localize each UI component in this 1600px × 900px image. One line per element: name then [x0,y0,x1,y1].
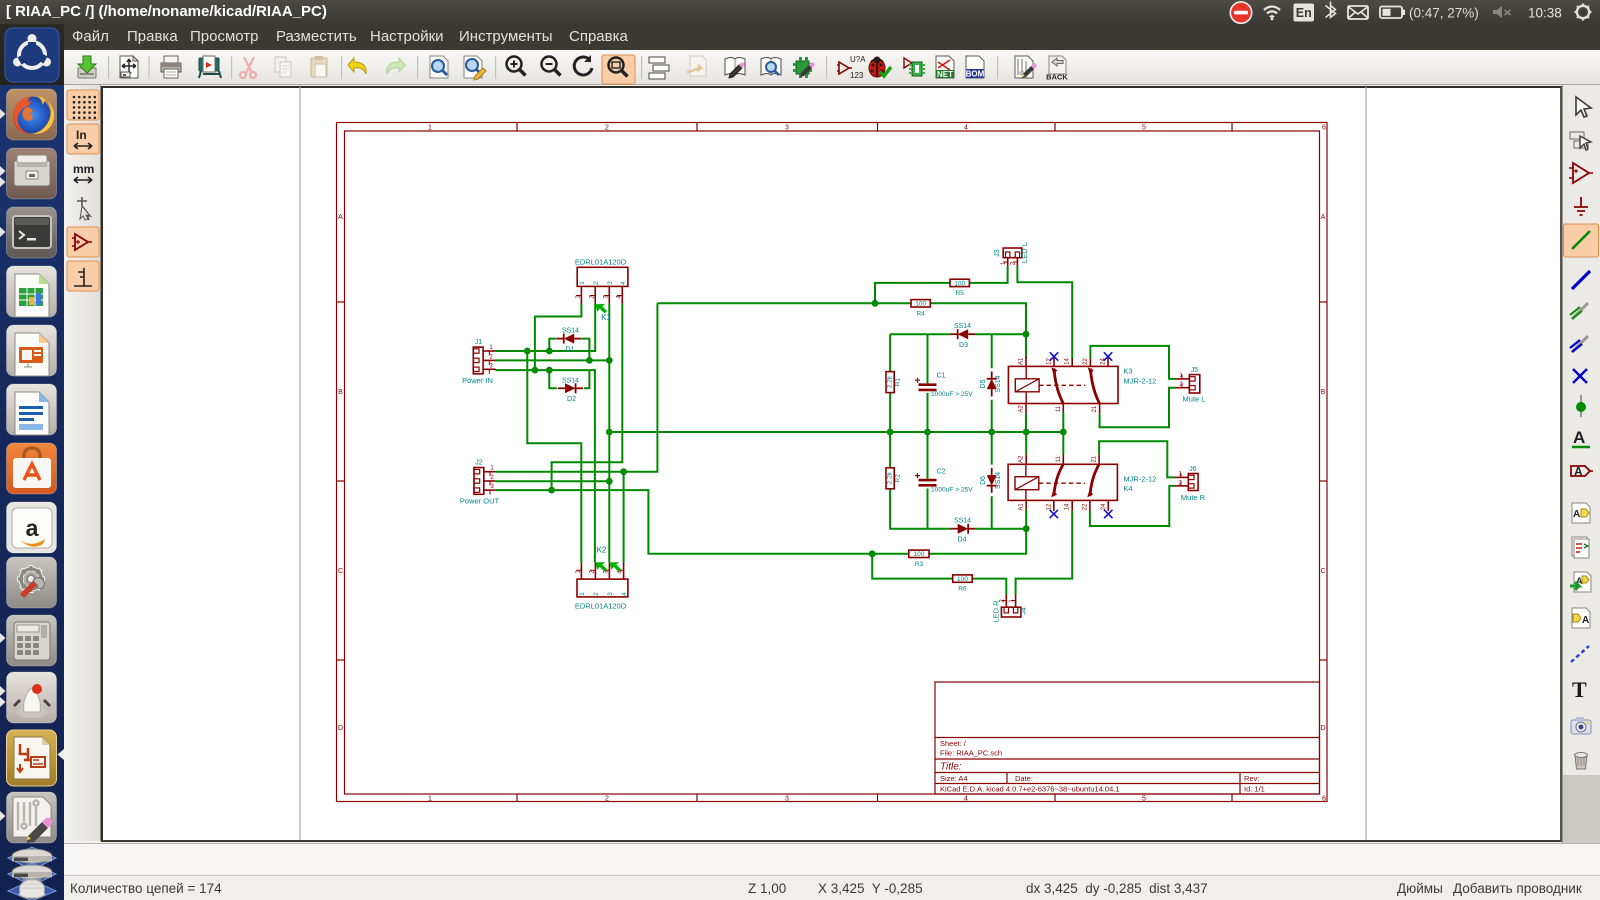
wire main bus row [609,431,1063,433]
resistor R1 [886,372,894,393]
svg-text:2: 2 [605,796,609,803]
svg-text:D1: D1 [566,347,575,354]
junction D3/K3.A1 [1023,331,1030,338]
wire K4.22 to J6.2 [1090,486,1175,526]
svg-text:4: 4 [621,592,628,596]
svg-text:Rev:: Rev: [1244,774,1259,783]
svg-text:Mute R: Mute R [1181,493,1206,502]
wire J1.3 to K2.2 column [496,370,595,562]
right tool column [1562,85,1600,775]
svg-text:File: RIAA_PC.sch: File: RIAA_PC.sch [940,749,1002,758]
svg-text:11: 11 [1056,405,1062,412]
junction J2.1/K2.4 [620,468,627,475]
launcher [0,85,64,900]
wire D2 anode branch [549,370,557,388]
svg-text:Power OUT: Power OUT [460,497,500,506]
svg-text:T: T [1572,677,1587,702]
svg-text:EDRL01A120D: EDRL01A120D [575,258,627,267]
svg-text:6: 6 [1322,125,1326,132]
svg-text:5: 5 [1142,125,1146,132]
connector J3 [1003,248,1022,258]
svg-text:Size: A4: Size: A4 [940,774,968,783]
junction J1.2/D1 [586,357,593,364]
wire D6 top lead [991,432,993,465]
capacitor C1 [919,383,937,386]
svg-text:J4: J4 [1020,607,1027,615]
svg-text:SS14: SS14 [954,518,971,525]
svg-text:3: 3 [785,125,789,132]
svg-text:10:38: 10:38 [1528,6,1562,21]
svg-text:D5: D5 [980,379,987,388]
svg-text:1: 1 [490,466,494,472]
diode D2 [558,387,565,389]
svg-text:C: C [338,568,343,575]
frame row ticks [337,301,345,303]
ubuntu BFB button [0,0,64,85]
svg-text:KiCad E.D.A. kicad 4.0.7+e2-6: KiCad E.D.A. kicad 4.0.7+e2-6376~38~ubun… [940,785,1120,794]
svg-text:SS14: SS14 [995,375,1002,392]
no-connect K3 pin24 [1104,352,1112,360]
junction R4/R5 tap [872,300,879,307]
wire D6 bottom lead [991,496,993,529]
junction bus/relay coils [1023,429,1030,436]
svg-text:1: 1 [579,592,586,596]
wire K4.A2 lead [1025,432,1027,454]
bottom strips [64,843,1600,876]
connector J5 [1189,375,1199,393]
wire K3.A2 lead [1025,414,1027,432]
wire R6 to J4.2 [972,579,1006,595]
wire K4.14 to J4.1 [1016,511,1073,595]
svg-text:123: 123 [850,71,864,80]
junction J2.2/K column [606,478,613,485]
ERC marker K2 pin3 [609,562,621,572]
svg-text:R1: R1 [895,378,902,387]
svg-text:100: 100 [957,576,968,583]
wire J2.2 [496,480,610,482]
connector J2 [474,468,484,495]
svg-text:D: D [338,725,343,732]
svg-text:K3: K3 [1123,367,1132,376]
svg-text:D2: D2 [567,396,576,403]
svg-text:14: 14 [1065,503,1071,510]
diode D1 [574,338,581,340]
svg-text:3: 3 [489,363,493,369]
svg-text:SS14: SS14 [562,328,579,335]
svg-text:R6: R6 [958,586,967,593]
diode D3 [968,333,975,335]
canvas [101,86,1562,842]
wire C1 bottom lead [927,393,929,432]
svg-text:1: 1 [489,345,493,351]
junction D4/K4.A1 [1023,525,1030,532]
junction J1.1/chain [524,348,531,355]
svg-text:2: 2 [490,475,494,481]
svg-text:4: 4 [620,281,627,285]
svg-text:A1: A1 [1019,357,1025,365]
wire R5 to J3.1 [969,266,1007,283]
wire K3.21 to J5.2 [1100,388,1175,428]
junction J1.1/D1 [546,348,553,355]
svg-text:2.2k: 2.2k [887,375,894,388]
resistor R4 [911,300,930,307]
diode D4 [950,528,957,530]
svg-text:Sheet: /: Sheet: / [940,739,967,748]
svg-text:A: A [1573,428,1585,447]
frame inner border [345,131,1320,794]
svg-text:B: B [338,389,343,396]
wire C1 top lead [927,334,929,383]
no-connect K3 pin12 [1050,352,1058,360]
svg-text:22: 22 [1082,503,1088,510]
junction bus/R1R2 [887,429,894,436]
svg-text:4: 4 [964,125,968,132]
system tray [1220,0,1600,24]
resistor R2 [886,468,894,489]
svg-text:C1: C1 [937,373,946,380]
svg-text:2.2k: 2.2k [887,471,894,484]
svg-text:6: 6 [1322,796,1326,803]
junction J2.3/K1.4 [548,487,555,494]
svg-text:NET: NET [937,70,953,79]
wire D5 top lead [991,334,993,368]
svg-text:D4: D4 [958,536,967,543]
wire R1 bottom lead [889,393,891,432]
svg-text:5: 5 [1142,796,1146,803]
wire D1 cathode branch [582,339,590,361]
svg-text:21: 21 [1092,405,1098,412]
junction J1.3/K1.1 [532,367,539,374]
svg-text:K4: K4 [1123,484,1132,493]
svg-text:MJR-2-12: MJR-2-12 [1123,376,1156,385]
wire R2 bottom to D4 row [890,489,950,529]
svg-text:3: 3 [607,592,614,596]
svg-text:D6: D6 [980,476,987,485]
relay K3 [1008,366,1118,403]
svg-text:J5: J5 [1191,367,1199,374]
svg-text:21: 21 [1092,455,1098,462]
page sheet left edge [299,85,301,841]
svg-text:1: 1 [428,796,432,803]
wire K1.4 to J2.3 jog [552,304,623,490]
ERC marker K1 pin2 [595,304,607,314]
svg-text:1: 1 [428,125,432,132]
main toolbar icons [0,50,1100,85]
wire J1.2 to K-column [496,359,610,361]
wire R4 to K3.A1 [930,303,1026,358]
wire D2 cathode branch [584,370,590,388]
svg-text:MJR-2-12: MJR-2-12 [1123,474,1156,483]
svg-text:BACK: BACK [1046,73,1068,82]
wire R5 tap [875,283,950,303]
svg-text:22: 22 [1083,358,1089,365]
svg-text:J2: J2 [475,460,483,467]
svg-text:R4: R4 [916,310,925,317]
svg-text:(0:47, 27%): (0:47, 27%) [1409,6,1479,21]
window title bar [0,0,1600,24]
svg-text:R5: R5 [956,290,965,297]
svg-text:1: 1 [1009,599,1015,603]
wire D1 anode branch [549,339,556,351]
diode D6 [991,468,993,475]
wire K4.21 to J6.1 [1099,441,1174,477]
svg-text:Date:: Date: [1015,774,1033,783]
junction J1.2/K column [606,357,613,364]
wire R3 to K4.A1 riser [929,510,1026,554]
svg-text:2: 2 [605,125,609,132]
wire R4 row [657,302,911,304]
frame column ticks [516,123,518,132]
svg-text:K2: K2 [597,546,607,555]
svg-text:a: a [26,515,39,541]
wire K2.4 column [623,472,625,563]
frame outer border [337,123,1328,802]
svg-text:J1: J1 [475,339,483,346]
junction J1.3/D2 [546,367,553,374]
resistor R6 [953,575,973,582]
svg-text:C2: C2 [937,469,946,476]
svg-text:1: 1 [579,281,586,285]
title block [935,682,1320,794]
svg-text:In: In [76,128,87,142]
relay connector K1 [577,267,628,286]
svg-text:2: 2 [593,281,600,285]
svg-text:A: A [338,214,343,221]
wire J1 to K2.1 [527,351,581,562]
wire C2 bottom lead [927,488,929,528]
svg-text:1000uF > 25V: 1000uF > 25V [931,391,973,398]
wire R1 top lead [889,334,891,371]
svg-text:K1: K1 [601,313,611,322]
svg-text:EDRL01A120D: EDRL01A120D [575,602,627,611]
wire K3.22 to J5.1 [1090,346,1175,379]
resistor R3 [909,550,929,557]
svg-text:12: 12 [1046,503,1052,510]
junction bus/C1C2 [924,429,931,436]
wire K1.1 to J1.3 jog [535,304,582,370]
wire D3 row left [890,333,950,335]
main toolbar [0,50,1600,85]
svg-text:R3: R3 [915,561,924,568]
svg-text:2: 2 [489,354,493,360]
wire J2.1 to R4 riser [496,303,658,471]
wire K1.3 to K2.3 column [608,304,610,562]
svg-text:U?A: U?A [850,55,866,64]
no-connect K4 pin24 [1104,510,1112,518]
svg-text:100: 100 [954,280,965,287]
menu bar [0,24,1600,50]
wire R3-R6 link [872,554,953,579]
svg-text:A: A [1582,615,1589,626]
capacitor C2 [919,479,937,482]
svg-text:24: 24 [1101,503,1107,510]
svg-text:14: 14 [1065,358,1071,365]
connector J6 [1188,474,1198,491]
wire K3.11 lead [1062,413,1064,433]
wire D3 row right [975,333,1026,335]
svg-text:3: 3 [607,281,614,285]
svg-text:SS14: SS14 [954,323,971,330]
svg-text:A: A [1321,214,1326,221]
svg-text:LED L: LED L [1020,242,1029,263]
relay K4 [1008,464,1117,500]
svg-text:BOM: BOM [966,70,985,79]
svg-text:1000uF > 25V: 1000uF > 25V [931,486,973,493]
svg-text:A: A [1573,509,1580,520]
svg-text:Title:: Title: [940,762,962,773]
right tool palette [1562,85,1600,785]
svg-text:SS14: SS14 [995,472,1002,489]
svg-text:J6: J6 [1189,466,1197,473]
svg-text:D: D [1320,725,1325,732]
svg-text:D3: D3 [959,342,968,349]
svg-text:3: 3 [785,796,789,803]
svg-text:J3: J3 [994,249,1001,257]
svg-text:R2: R2 [895,474,902,483]
svg-text:11: 11 [1056,456,1062,463]
ERC marker K2 pin2 [595,562,607,572]
ubuntu button [0,24,64,85]
svg-text:C: C [1320,568,1325,575]
svg-text:B: B [1321,389,1326,396]
svg-text:SS14: SS14 [562,377,579,384]
svg-text:Id: 1/1: Id: 1/1 [1244,785,1265,794]
svg-text:A: A [1574,465,1583,479]
relay connector K2 [577,579,628,597]
svg-text:A2: A2 [1019,405,1025,413]
connector J4 [1001,607,1021,617]
svg-text:Power IN: Power IN [462,376,493,385]
svg-text:4: 4 [964,796,968,803]
wire K4.11 lead [1062,432,1064,454]
wire D4 row right [975,528,1026,530]
wire D5 bottom lead [991,400,993,432]
svg-text:A2: A2 [1019,455,1025,463]
junction bus/D5D6 [988,429,995,436]
wire J2.3 to R3 row [496,490,909,554]
no-connect K4 pin12 [1050,510,1058,518]
diode D5 [991,389,993,396]
junction R3/R6 tap [869,550,876,557]
wire J3.2 to K3.14 [1017,266,1072,359]
wire J1.1 to K1.2 column [496,304,596,351]
ubuntu launcher icons [0,0,64,900]
svg-text:100: 100 [913,551,924,558]
svg-text:LED R: LED R [991,600,1000,623]
svg-text:Mute L: Mute L [1183,395,1206,404]
junction bus/K column [606,429,613,436]
junction bus/relay contacts [1060,429,1067,436]
connector J1 [473,347,483,374]
svg-text:2: 2 [1000,599,1006,603]
wire C2 top lead [927,432,929,479]
left option toolbar [64,85,101,305]
svg-text:mm: mm [73,162,94,176]
svg-text:3: 3 [490,484,494,490]
svg-text:2: 2 [593,592,600,596]
svg-text:En: En [1296,6,1312,20]
svg-text:A1: A1 [1019,503,1025,511]
resistor R5 [950,279,969,286]
wire R2 top lead [889,432,891,468]
svg-text:100: 100 [915,301,926,308]
page sheet right edge [1365,85,1367,841]
left tool column [64,85,101,841]
